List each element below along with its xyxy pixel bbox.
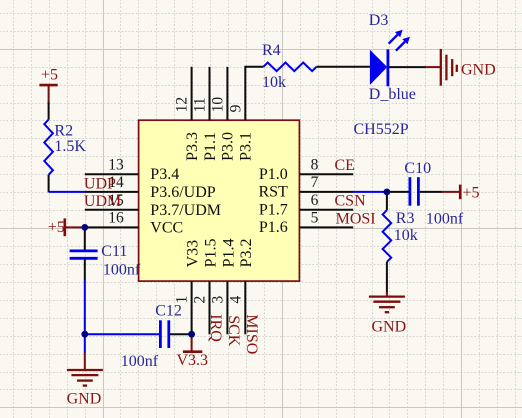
svg-text:UDM: UDM [84,193,121,210]
svg-text:10k: 10k [262,74,286,91]
svg-text:CH552P: CH552P [354,121,409,138]
svg-text:D3: D3 [369,12,389,29]
svg-text:9: 9 [227,104,244,112]
svg-text:5: 5 [311,210,319,227]
svg-text:P3.3: P3.3 [184,132,201,161]
svg-text:2: 2 [192,296,209,304]
svg-text:P3.6/UDP: P3.6/UDP [150,184,215,201]
svg-text:+5: +5 [463,184,480,201]
svg-text:1.5K: 1.5K [54,138,86,155]
svg-text:100nf: 100nf [426,211,464,228]
svg-text:UDP: UDP [84,175,116,192]
svg-text:V33: V33 [185,240,202,268]
svg-text:D_blue: D_blue [369,86,416,103]
svg-text:C12: C12 [155,303,182,320]
svg-text:MISO: MISO [243,314,260,354]
svg-text:CSN: CSN [335,193,367,210]
svg-text:C10: C10 [404,160,431,177]
svg-text:P3.0: P3.0 [220,132,237,161]
svg-text:12: 12 [174,97,191,113]
svg-text:CE: CE [335,157,355,174]
svg-text:GND: GND [372,318,407,335]
svg-text:P1.6: P1.6 [259,219,288,236]
svg-text:7: 7 [311,174,319,191]
svg-text:6: 6 [311,192,319,209]
svg-text:+5: +5 [48,219,65,236]
svg-text:C11: C11 [101,243,127,260]
svg-text:GND: GND [67,391,102,408]
svg-text:R3: R3 [396,210,415,227]
svg-text:8: 8 [311,156,319,173]
svg-text:P1.0: P1.0 [259,166,288,183]
svg-text:P3.1: P3.1 [238,132,255,161]
svg-text:100nf: 100nf [121,353,159,370]
svg-text:V3.3: V3.3 [177,352,209,369]
svg-text:MOSI: MOSI [336,211,376,228]
svg-text:4: 4 [227,296,244,304]
svg-text:P1.7: P1.7 [259,202,288,219]
svg-text:P3.2: P3.2 [238,238,255,267]
svg-text:P1.5: P1.5 [202,238,219,267]
svg-text:10k: 10k [394,227,418,244]
svg-text:P3.7/UDM: P3.7/UDM [150,202,221,219]
svg-text:P1.4: P1.4 [220,238,237,267]
svg-text:RST: RST [258,184,288,201]
svg-text:11: 11 [192,97,209,112]
svg-text:+5: +5 [41,67,58,84]
svg-text:IRQ: IRQ [207,314,224,342]
svg-text:VCC: VCC [150,219,183,236]
svg-text:R4: R4 [262,42,281,59]
svg-text:16: 16 [108,210,124,227]
svg-text:P3.4: P3.4 [150,166,179,183]
svg-text:3: 3 [209,296,226,304]
svg-text:100nf: 100nf [103,262,141,279]
svg-text:P1.1: P1.1 [202,132,219,161]
svg-text:GND: GND [461,62,496,79]
svg-text:SCK: SCK [225,315,242,347]
svg-text:10: 10 [209,97,226,113]
svg-text:13: 13 [108,156,124,173]
